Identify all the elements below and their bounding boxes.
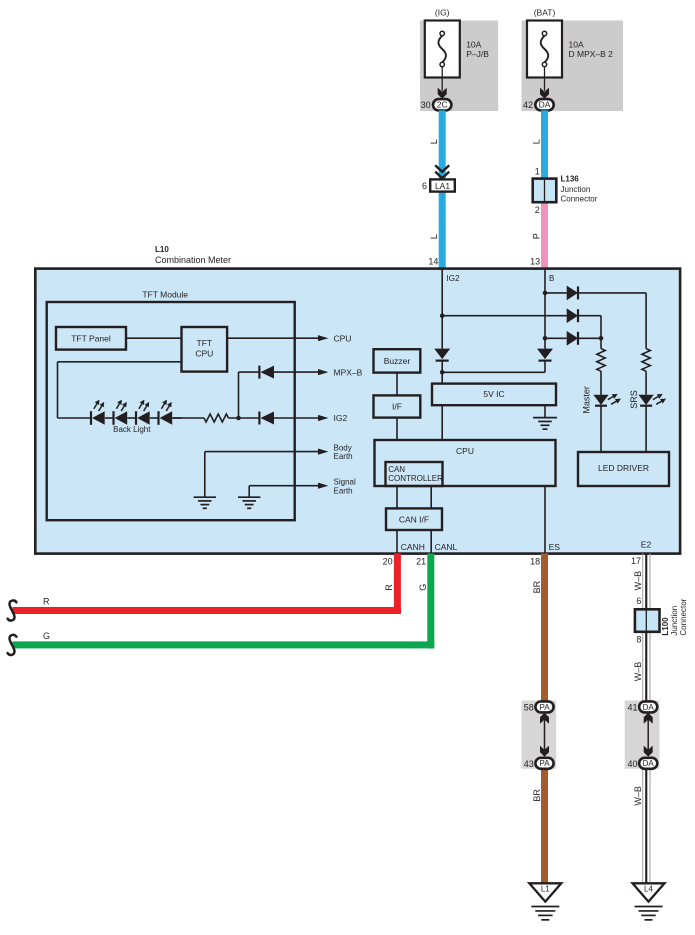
svg-text:Master: Master <box>582 386 592 414</box>
svg-text:MPX–B: MPX–B <box>334 367 363 377</box>
svg-text:TFT Panel: TFT Panel <box>71 334 111 344</box>
svg-text:8: 8 <box>636 634 641 644</box>
svg-text:W–B: W–B <box>633 571 643 591</box>
svg-text:6: 6 <box>422 181 427 191</box>
svg-text:L1: L1 <box>541 885 550 894</box>
svg-text:17: 17 <box>631 556 641 566</box>
svg-text:(IG): (IG) <box>435 8 450 18</box>
svg-text:2: 2 <box>535 205 540 215</box>
svg-text:42: 42 <box>523 100 533 110</box>
svg-text:58: 58 <box>524 702 534 712</box>
svg-text:W–B: W–B <box>633 662 643 682</box>
svg-text:TFT: TFT <box>197 338 213 348</box>
svg-text:6: 6 <box>636 596 641 606</box>
svg-text:L100: L100 <box>661 617 670 636</box>
svg-text:G: G <box>43 631 50 641</box>
svg-text:CAN I/F: CAN I/F <box>399 515 429 525</box>
svg-text:CAN: CAN <box>388 465 405 474</box>
svg-text:B: B <box>549 274 554 283</box>
svg-text:CANH: CANH <box>401 542 425 552</box>
svg-text:BR: BR <box>532 580 542 593</box>
svg-text:DA: DA <box>643 703 655 712</box>
svg-text:PA: PA <box>539 703 550 712</box>
svg-text:IG2: IG2 <box>334 413 348 423</box>
svg-text:Combination Meter: Combination Meter <box>155 255 231 265</box>
svg-text:G: G <box>418 584 428 591</box>
svg-text:Body: Body <box>334 443 352 452</box>
svg-text:P: P <box>532 233 542 239</box>
svg-text:PA: PA <box>539 759 550 768</box>
svg-text:TFT Module: TFT Module <box>142 289 188 299</box>
svg-text:Connector: Connector <box>679 598 688 635</box>
svg-text:LA1: LA1 <box>435 181 450 191</box>
svg-text:I/F: I/F <box>392 402 402 412</box>
svg-text:CONTROLLER: CONTROLLER <box>388 474 443 483</box>
svg-text:18: 18 <box>530 557 540 567</box>
svg-text:1: 1 <box>535 167 540 177</box>
svg-text:Signal: Signal <box>334 478 356 487</box>
svg-text:SRS: SRS <box>629 390 639 409</box>
svg-text:IG2: IG2 <box>447 274 460 283</box>
svg-text:L4: L4 <box>644 885 653 894</box>
svg-text:CANL: CANL <box>435 542 458 552</box>
svg-text:CPU: CPU <box>456 446 474 456</box>
svg-text:30: 30 <box>421 100 431 110</box>
svg-text:E2: E2 <box>641 540 652 550</box>
svg-text:CPU: CPU <box>334 333 352 343</box>
svg-text:L: L <box>429 234 439 239</box>
svg-text:13: 13 <box>530 256 540 266</box>
svg-text:LED DRIVER: LED DRIVER <box>598 463 649 473</box>
svg-text:BR: BR <box>532 789 542 802</box>
svg-text:40: 40 <box>627 759 637 769</box>
svg-text:(BAT): (BAT) <box>534 8 556 18</box>
svg-text:43: 43 <box>524 759 534 769</box>
svg-text:20: 20 <box>383 557 393 567</box>
svg-text:Buzzer: Buzzer <box>384 356 411 366</box>
svg-text:R: R <box>43 597 50 607</box>
svg-text:D MPX–B 2: D MPX–B 2 <box>569 49 614 59</box>
svg-text:ES: ES <box>549 542 561 552</box>
svg-text:L: L <box>429 139 439 144</box>
svg-text:L10: L10 <box>155 245 169 254</box>
svg-text:P–J/B: P–J/B <box>466 49 489 59</box>
svg-text:2C: 2C <box>437 100 448 110</box>
svg-text:Junction: Junction <box>670 606 679 636</box>
svg-text:Earth: Earth <box>334 452 353 461</box>
svg-text:L: L <box>532 139 542 144</box>
svg-text:DA: DA <box>643 759 655 768</box>
svg-text:5V IC: 5V IC <box>483 389 504 399</box>
svg-text:21: 21 <box>416 557 426 567</box>
svg-text:14: 14 <box>428 256 438 266</box>
svg-text:Back Light: Back Light <box>113 425 151 434</box>
svg-text:Earth: Earth <box>334 487 353 496</box>
svg-text:DA: DA <box>539 100 551 110</box>
svg-text:R: R <box>384 584 394 591</box>
svg-text:Junction: Junction <box>561 185 591 194</box>
svg-text:L136: L136 <box>561 175 580 184</box>
svg-text:W–B: W–B <box>633 786 643 806</box>
svg-text:Connector: Connector <box>561 194 598 203</box>
svg-text:41: 41 <box>627 702 637 712</box>
svg-text:CPU: CPU <box>195 349 213 359</box>
